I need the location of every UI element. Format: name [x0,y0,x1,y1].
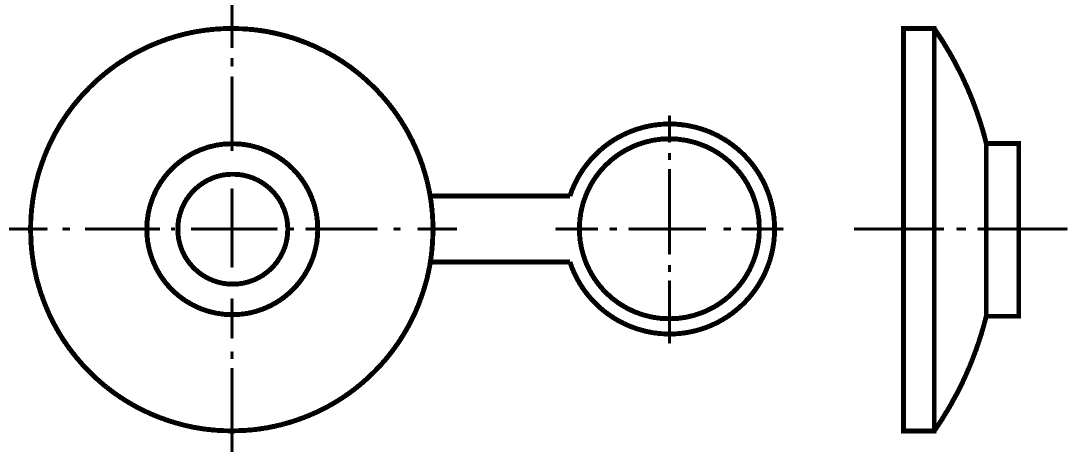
ring outer circle (trimmed at lug) [570,124,775,334]
flange boss circle [147,144,318,315]
side view upper conical face arc [934,29,986,144]
vertical centerline of small ring [668,115,671,343]
vertical centerline of large flange circle [231,5,234,452]
lug bottom line [430,260,570,265]
side view flange plate rectangle [904,29,935,432]
side view lower conical face arc [934,316,986,431]
lug top line [430,194,570,199]
horizontal centerline, front view (dash-dot segments) [9,228,784,231]
side view boss rectangle [986,143,1018,316]
large flange outer circle [31,29,433,431]
ring inner circle [579,139,759,319]
flange bore circle [178,174,288,284]
horizontal centerline, side view [854,228,1068,231]
